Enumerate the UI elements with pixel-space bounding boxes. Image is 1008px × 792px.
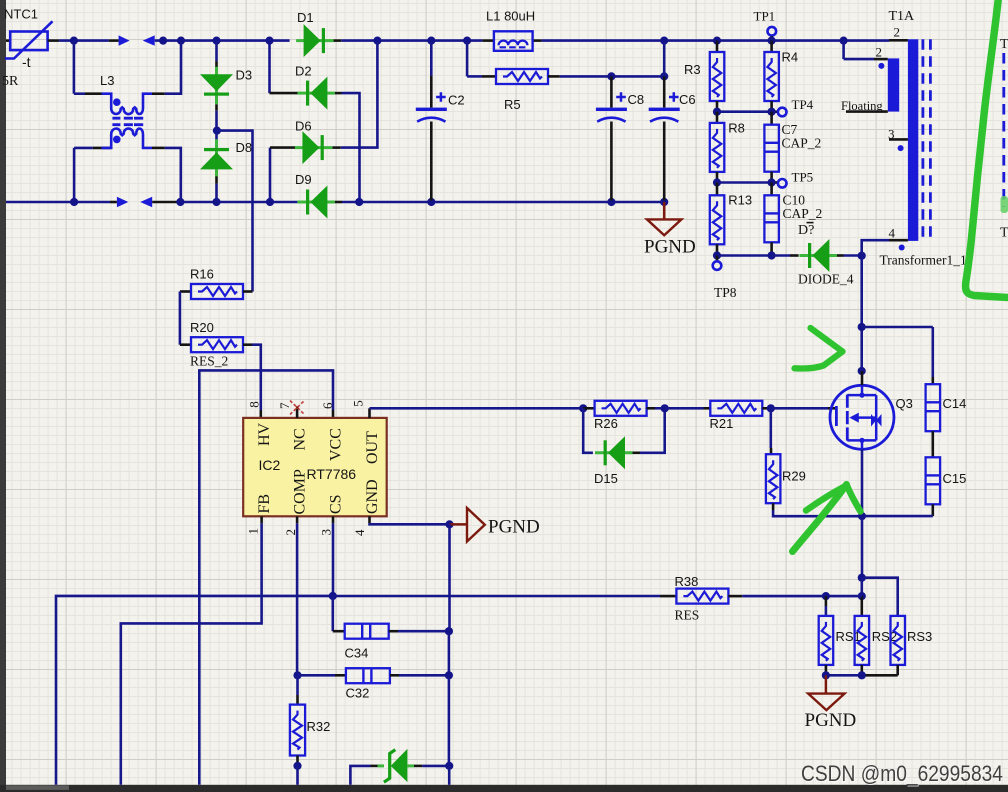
- wire: sense row to RS2: [858, 578, 866, 616]
- resistor R26: [579, 401, 665, 431]
- ground PGND (controller): [450, 508, 540, 542]
- svg-text:CAP_2: CAP_2: [783, 206, 823, 221]
- capacitor C32: [298, 668, 449, 700]
- svg-text:R20: R20: [190, 320, 214, 335]
- port arrows on top rail: [119, 35, 155, 45]
- svg-text:R16: R16: [190, 267, 214, 282]
- svg-text:PGND: PGND: [488, 517, 540, 538]
- wire: transformer pin4 to drain node: [862, 240, 889, 256]
- wire: COMP vertical: [293, 523, 301, 679]
- resistor R3: [684, 41, 724, 112]
- svg-text:R8: R8: [728, 120, 745, 135]
- transformer T1A: [880, 9, 967, 268]
- svg-text:5: 5: [350, 400, 365, 407]
- common-mode choke L3: [74, 41, 152, 202]
- svg-text:NTC1: NTC1: [4, 7, 38, 22]
- wire: gate wire to Q3: [767, 404, 836, 412]
- wire: bridge midpoint to R16: [217, 131, 253, 292]
- svg-text:NC: NC: [292, 428, 309, 450]
- svg-text:C32: C32: [346, 686, 370, 701]
- IC2 pin 8 HV: [246, 401, 273, 446]
- svg-text:7: 7: [277, 402, 292, 409]
- svg-text:6: 6: [320, 402, 335, 409]
- diode D2: [265, 37, 359, 201]
- wire: C14 to C15: [931, 431, 934, 457]
- svg-text:RES: RES: [675, 608, 700, 623]
- svg-text:PGND: PGND: [805, 710, 857, 731]
- test point TP8: [713, 256, 737, 301]
- resistor R21: [661, 401, 771, 431]
- svg-text:C2: C2: [448, 93, 465, 108]
- test point TP1: [754, 9, 777, 41]
- IC2 pin 4 GND: [352, 479, 381, 536]
- wire: bottom ladder row: [713, 251, 776, 259]
- svg-text:D9: D9: [295, 172, 312, 187]
- svg-text:C14: C14: [943, 396, 967, 411]
- svg-text:3: 3: [319, 529, 334, 536]
- svg-text:C8: C8: [628, 92, 645, 107]
- svg-text:4: 4: [352, 529, 367, 536]
- svg-text:Floating: Floating: [841, 99, 883, 113]
- svg-text:TP8: TP8: [714, 285, 737, 300]
- resistor R5: [467, 42, 668, 112]
- diode D6: [266, 42, 378, 206]
- svg-text:L1 80uH: L1 80uH: [486, 9, 535, 24]
- svg-text:OUT: OUT: [364, 431, 381, 464]
- svg-text:TP5: TP5: [792, 169, 814, 184]
- svg-text:FB: FB: [256, 494, 273, 514]
- svg-text:-t: -t: [22, 54, 31, 70]
- svg-text:HV: HV: [256, 422, 273, 446]
- svg-text:TP1: TP1: [754, 9, 776, 24]
- capacitor C15: [926, 457, 967, 504]
- svg-text:DIODE_4: DIODE_4: [798, 272, 854, 287]
- wire: Q3 source to sense node: [858, 449, 866, 577]
- svg-text:RES_2: RES_2: [190, 353, 228, 368]
- svg-text:D6: D6: [295, 119, 312, 134]
- resistor R4: [764, 41, 798, 112]
- svg-text:D15: D15: [594, 471, 618, 486]
- diode D3: [200, 42, 252, 131]
- wire: R16 left to R20 left: [179, 292, 182, 345]
- ground PGND (primary, under C6): [644, 202, 696, 258]
- resistor R29: [766, 408, 862, 516]
- wire: R8/C7 junction row with TP5: [713, 178, 778, 186]
- node: source branch: [858, 574, 898, 616]
- svg-text:RT7786: RT7786: [307, 466, 357, 482]
- svg-text:3: 3: [888, 126, 895, 141]
- svg-text:R38: R38: [675, 574, 699, 589]
- svg-text:VCC: VCC: [327, 428, 344, 461]
- wire: top rail after D1 (DC+): [341, 37, 908, 45]
- svg-text:R32: R32: [307, 719, 331, 734]
- IC2 pin 1 FB: [246, 494, 274, 535]
- second transformer fragment at right edge: [1000, 37, 1008, 241]
- svg-text:1: 1: [246, 528, 261, 535]
- wire: VCC feed to IC pin 6: [199, 370, 333, 784]
- svg-text:C34: C34: [345, 646, 369, 661]
- inductor L1: [486, 9, 535, 51]
- transformer floating winding: [841, 41, 899, 114]
- wire: RS bottom row: [822, 671, 866, 679]
- wire: GND vertical bus: [448, 524, 451, 631]
- node: GND bus at C34: [445, 627, 453, 675]
- svg-text:T1A: T1A: [889, 9, 916, 24]
- IC2 pin 5 OUT: [350, 400, 381, 464]
- svg-text:D3: D3: [236, 67, 253, 82]
- wire: bottom rail (AC neutral): [6, 197, 297, 207]
- svg-text:R5: R5: [504, 97, 521, 112]
- resistor R38: [675, 574, 862, 623]
- node: junctions on top rail: [70, 37, 221, 45]
- svg-text:CS: CS: [327, 494, 344, 514]
- svg-text:Transformer1_1: Transformer1_1: [880, 253, 967, 268]
- capacitor C7: [764, 112, 821, 183]
- svg-text:5R: 5R: [2, 74, 19, 89]
- IC2 pin 3 CS: [319, 494, 345, 535]
- test point TP5: [778, 169, 813, 187]
- capacitor C10: [764, 183, 822, 256]
- svg-text:PGND: PGND: [644, 237, 696, 258]
- annotation arrow (lower): [793, 485, 861, 552]
- diode D1: [296, 10, 341, 57]
- node: drain net junction: [858, 252, 866, 260]
- svg-text:D8: D8: [236, 140, 253, 155]
- svg-text:RS3: RS3: [907, 629, 932, 644]
- svg-text:4: 4: [889, 225, 896, 240]
- svg-text:R21: R21: [710, 416, 734, 431]
- wire: R20 to IC pin 8 (HV): [252, 345, 261, 418]
- capacitor C14: [926, 384, 967, 431]
- svg-text:D2: D2: [295, 64, 312, 79]
- diode D8: [200, 131, 252, 201]
- node: D3/D8 midpoint: [213, 127, 221, 135]
- svg-text:2: 2: [283, 529, 298, 536]
- resistor R8: [710, 112, 745, 183]
- diode D15 (parallel with R26): [583, 408, 665, 486]
- resistor R20: [180, 320, 252, 369]
- capacitor C6: [649, 76, 696, 200]
- ground PGND (sense): [805, 675, 857, 731]
- thermistor NTC1: [2, 7, 53, 90]
- svg-text:R3: R3: [684, 62, 701, 77]
- node: GND bus at C32: [445, 671, 453, 766]
- wire: C15 bottom to source node: [862, 504, 933, 516]
- svg-text:C15: C15: [943, 471, 967, 486]
- diode D9: [295, 172, 359, 219]
- wire: drain vertical: [858, 256, 866, 375]
- svg-text:2: 2: [876, 45, 883, 60]
- svg-text:L3: L3: [100, 73, 114, 88]
- svg-text:IC2: IC2: [259, 457, 281, 473]
- test point TP4: [778, 97, 814, 116]
- op-amp IC2 RT7786 controller: [243, 418, 387, 516]
- transistor Q3 (MOSFET): [830, 371, 913, 449]
- wire: OUT net to gate row: [370, 407, 584, 410]
- resistor R13: [710, 183, 752, 256]
- svg-text:GND: GND: [364, 479, 381, 514]
- IC2 pin 2 COMP: [283, 469, 309, 535]
- svg-text:R13: R13: [728, 192, 752, 207]
- svg-text:TP4: TP4: [792, 97, 814, 112]
- resistor RS1: [819, 592, 861, 675]
- svg-text:D?: D?: [798, 223, 814, 238]
- resistor RS3: [862, 616, 932, 675]
- svg-text:CAP_2: CAP_2: [782, 136, 822, 151]
- wire: rail to C6/C8 node: [663, 42, 666, 76]
- svg-text:T: T: [1000, 37, 1008, 52]
- wire: top rail segment to D1: [155, 39, 290, 42]
- svg-text:2: 2: [894, 25, 901, 40]
- wire: top rail left (AC live): [48, 39, 119, 42]
- capacitor C34: [345, 624, 449, 661]
- svg-text:Q3: Q3: [896, 396, 913, 411]
- wire: FB net routing: [121, 523, 262, 785]
- annotation arrow (upper): [795, 328, 843, 368]
- IC2 pin 7 NC with no-connect cross: [277, 401, 308, 451]
- wire: R3/R4 junction row with TP4: [713, 108, 778, 116]
- wire: bottom rail right section: [355, 198, 668, 206]
- svg-text:R26: R26: [594, 416, 618, 431]
- svg-text:R29: R29: [782, 469, 806, 484]
- wire: CS sense line (long horizontal): [56, 523, 676, 785]
- resistor R16: [180, 267, 253, 299]
- diode D? DIODE_4: [772, 223, 862, 287]
- capacitor C2: [416, 42, 465, 201]
- svg-text:D1: D1: [297, 10, 314, 25]
- IC2 pin 6 VCC: [320, 402, 344, 461]
- wire: L3 top-right to rail: [152, 42, 181, 94]
- resistor RS2: [855, 616, 897, 675]
- svg-text:T: T: [1000, 226, 1008, 241]
- resistor R32: [290, 675, 330, 785]
- svg-text:R4: R4: [782, 50, 799, 65]
- svg-text:8: 8: [246, 401, 261, 408]
- annotation: green curve right edge: [966, 0, 1008, 298]
- svg-text:COMP: COMP: [292, 469, 309, 514]
- wire: L3 bottom-right to bottom rail: [152, 148, 181, 201]
- capacitor C8: [596, 76, 644, 200]
- wire: snubber branch to C14: [862, 327, 933, 384]
- svg-text:C6: C6: [679, 92, 696, 107]
- svg-text:CSDN @m0_62995834: CSDN @m0_62995834: [801, 761, 1003, 786]
- wire: CS vertical to C34: [333, 596, 345, 631]
- wire: GND pin to PGND and sense net: [370, 520, 454, 528]
- zener diode (feedback clamp): [350, 749, 453, 785]
- node: R3/R4 top junctions: [713, 37, 776, 45]
